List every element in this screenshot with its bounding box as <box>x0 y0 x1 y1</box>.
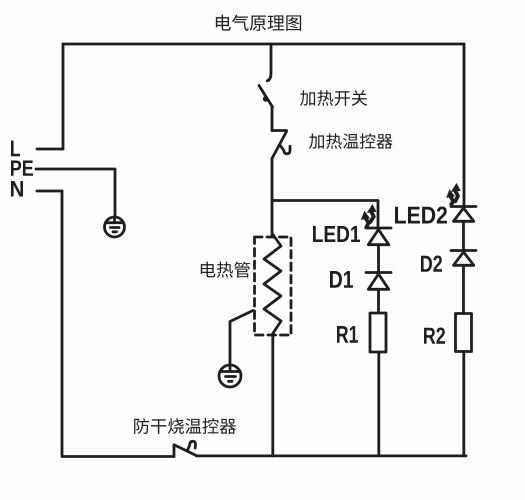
wire: D1 to R1 <box>377 289 380 313</box>
heater element dashed enclosure <box>255 237 292 335</box>
wire: between heating switch and thermostat <box>271 107 274 131</box>
wire: left vertical from N terminal to bottom bus <box>62 191 174 457</box>
label D2 <box>421 255 442 271</box>
terminal label N <box>11 181 23 196</box>
diode D1 <box>366 273 391 290</box>
wire: R1 to bottom bus <box>377 352 380 456</box>
heater element 电热管 zigzag <box>264 234 281 334</box>
terminal label PE <box>11 160 33 175</box>
ground: PE earth electrode <box>105 217 125 237</box>
wire: R2 to bottom bus <box>462 352 465 457</box>
wire: D2 to R2 <box>462 265 465 313</box>
wire: heater sheath to earth <box>230 311 253 366</box>
wire: PE stub to earth <box>36 169 115 217</box>
label D1 <box>330 271 353 288</box>
wire: right vertical from top bus to LED2 <box>463 44 466 206</box>
label 防干烧温控器 <box>134 418 236 434</box>
wire: branch from heater line to LED1 string <box>272 201 378 228</box>
label R1 <box>337 326 358 343</box>
label 加热开关 <box>300 90 367 106</box>
wire: thermostat down to heater element <box>271 159 274 237</box>
switch: heating thermostat contact 加热温控器 <box>272 131 290 159</box>
wire: top bus <box>63 43 464 46</box>
label 加热温控器 <box>309 133 393 149</box>
ground: heater earth electrode <box>219 365 241 387</box>
switch: anti-dry-burn thermostat contact <box>174 441 197 456</box>
LED LED2 light arrows <box>446 183 461 205</box>
diode D2 <box>451 251 476 266</box>
LED LED2 diode symbol <box>451 207 476 222</box>
wire: bottom bus <box>197 454 467 457</box>
wire: left vertical from L terminal to top bus <box>62 44 65 149</box>
label LED1 <box>313 226 360 242</box>
LED LED1 light arrows <box>361 204 377 227</box>
resistor R1 <box>370 313 386 352</box>
LED LED1 diode symbol <box>366 228 391 245</box>
wire: heater bottom to bottom bus <box>271 334 274 456</box>
label 电热管 <box>201 262 250 278</box>
terminal label L <box>11 141 20 157</box>
wire: heater branch drop from top bus <box>267 44 271 81</box>
label LED2 <box>395 206 447 223</box>
wire: L stub <box>37 148 63 151</box>
label R2 <box>424 327 445 343</box>
resistor R2 <box>456 314 472 352</box>
wire: LED2 to D2 <box>462 221 465 250</box>
wire: LED1 to D1 <box>377 245 380 272</box>
wire: N stub <box>37 190 62 193</box>
switch: heating switch blade 加热开关 <box>259 86 273 108</box>
title 电气原理图 <box>216 15 301 31</box>
